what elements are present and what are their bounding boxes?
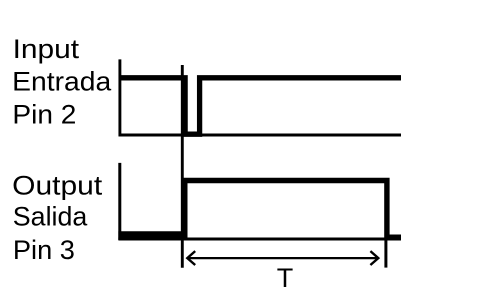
T arrow right head — [370, 251, 378, 265]
svg-text:Pin 3: Pin 3 — [13, 235, 75, 265]
output axis vertical — [118, 163, 121, 240]
input baseline wire — [119, 134, 402, 137]
input waveform Pin 2 — [119, 78, 402, 134]
output low segment wire — [118, 231, 187, 239]
output waveform Pin 3 — [185, 181, 401, 240]
svg-text:Output: Output — [12, 170, 103, 200]
svg-text:Entrada: Entrada — [12, 66, 111, 96]
T arrow left head — [187, 251, 195, 265]
svg-text:T: T — [277, 263, 294, 293]
label Input/Entrada/Pin 2 — [12, 34, 111, 129]
svg-text:Salida: Salida — [13, 202, 88, 232]
T interval right boundary line — [384, 239, 387, 268]
input axis vertical — [118, 59, 121, 136]
label Output/Salida/Pin 3 — [12, 170, 103, 265]
output baseline wire — [118, 238, 401, 241]
trigger timing line — [181, 65, 184, 268]
svg-text:Input: Input — [13, 34, 80, 64]
T arrow shaft — [187, 257, 378, 259]
svg-text:Pin 2: Pin 2 — [12, 99, 76, 129]
